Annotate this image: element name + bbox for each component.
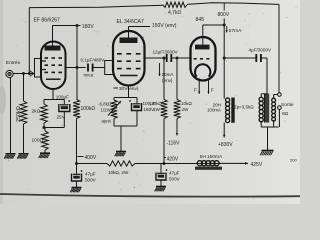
- resistor R8 10k 2W horizontal: [107, 161, 135, 175]
- ground R3: [39, 153, 50, 158]
- wire OPT primary top: [261, 58, 267, 97]
- svg-text:47µF: 47µF: [85, 172, 96, 177]
- wire input to grid: [13, 71, 35, 77]
- svg-text:1/2W: 1/2W: [101, 108, 112, 113]
- ground OPT: [260, 151, 273, 156]
- svg-text:500V: 500V: [85, 178, 97, 183]
- label 400V: [78, 155, 97, 161]
- svg-text:+830V: +830V: [218, 142, 233, 148]
- svg-text:30V(env): 30V(env): [119, 86, 139, 92]
- input jack Entree: [6, 60, 21, 78]
- svg-text:845: 845: [196, 17, 205, 23]
- wire 800V vertical: [223, 19, 226, 99]
- svg-text:57mA: 57mA: [229, 28, 242, 34]
- svg-text:150V (env): 150V (env): [152, 23, 177, 29]
- svg-text:800V: 800V: [218, 12, 230, 18]
- tube V1 grid bracket: [35, 59, 47, 78]
- tube V1 grid dashes: [45, 58, 63, 79]
- tube V3 filament arch: [195, 64, 210, 76]
- tube V1 label: [34, 18, 61, 24]
- svg-text:10kΩ, 2W: 10kΩ, 2W: [108, 170, 129, 175]
- wire V3 plate to node: [203, 24, 226, 45]
- label 420V: [164, 156, 179, 162]
- wire OPT secondary top: [274, 95, 278, 99]
- svg-text:10kΩ: 10kΩ: [181, 101, 192, 106]
- stray page text: [290, 158, 297, 163]
- tube V3 grid dashes: [194, 58, 210, 60]
- svg-text:F: F: [194, 88, 197, 94]
- svg-text:100mA: 100mA: [207, 108, 221, 113]
- svg-text:2W: 2W: [182, 107, 190, 112]
- output terminal Sortie hot: [278, 93, 294, 108]
- label 30V env: [114, 86, 139, 92]
- svg-text:250kΩ: 250kΩ: [16, 106, 22, 122]
- svg-text:8Ω: 8Ω: [282, 111, 289, 117]
- svg-text:Zp≈3,5kΩ: Zp≈3,5kΩ: [234, 105, 254, 110]
- label 180V: [82, 24, 94, 30]
- resistor R1 250k grid leak: [16, 72, 27, 154]
- svg-text:EL 34/6CA7: EL 34/6CA7: [117, 19, 144, 25]
- output terminal Sortie return: [274, 106, 289, 127]
- capacitor C3 100uF 160V: [129, 100, 156, 112]
- ground C7: [155, 187, 166, 192]
- svg-text:425V: 425V: [251, 162, 263, 168]
- tube V2 label: [117, 19, 144, 25]
- wire OPT primary bottom: [261, 121, 278, 127]
- wire V2 cathode: [114, 86, 137, 104]
- svg-text:200: 200: [290, 158, 297, 163]
- svg-text:4,7kΩ: 4,7kΩ: [168, 10, 181, 16]
- wire cathode node: [43, 126, 65, 129]
- wire supply rail 400V section: [75, 162, 107, 165]
- label 800V: [218, 3, 230, 18]
- wire V2 cathode bottom: [114, 111, 137, 152]
- label -116V bias: [167, 119, 181, 147]
- svg-text:100µF: 100µF: [56, 94, 69, 99]
- svg-text:100Ω: 100Ω: [32, 138, 44, 144]
- wire V1 plate node vertical: [76, 24, 79, 100]
- tube V3 label: [196, 17, 205, 23]
- wire V1 plate to 180V: [53, 26, 81, 46]
- wire V2 plate pin to cap: [145, 57, 167, 60]
- label 20mA env: [158, 63, 174, 83]
- page rule line: [0, 194, 300, 197]
- svg-text:0,1µF/480V: 0,1µF/480V: [81, 58, 106, 63]
- tube V3 anode plate bar: [195, 45, 210, 50]
- tube V2 anode plate bar: [120, 38, 138, 44]
- svg-text:20mA: 20mA: [162, 72, 175, 77]
- wire C4 to 845 grid: [171, 57, 190, 60]
- resistor R3 100R: [32, 128, 49, 154]
- choke L2 5H 150mA: [195, 154, 223, 170]
- svg-text:150mA: 150mA: [207, 154, 223, 160]
- capacitor C2 0,1uF/480V mica: [81, 58, 106, 78]
- wire V3 filament leads F F: [194, 79, 214, 94]
- svg-text:100kΩ: 100kΩ: [81, 106, 96, 112]
- svg-text:25V: 25V: [57, 114, 66, 119]
- resistor R4 100k plate load: [73, 100, 95, 165]
- ground R1: [17, 154, 28, 159]
- tube V2 grid bracket: [105, 61, 113, 75]
- wire V1 side pin to coupling cap: [66, 67, 86, 69]
- capacitor C5 4uF/3000V: [224, 48, 272, 63]
- wire V2 top to 150V: [129, 27, 151, 38]
- svg-text:4µF/3000V: 4µF/3000V: [249, 48, 273, 53]
- label 57mA: [226, 26, 243, 34]
- wire jack ground drop: [10, 78, 12, 154]
- potentiometer R5 6,8k ajust: [100, 100, 122, 124]
- svg-text:mica: mica: [84, 73, 94, 78]
- svg-text:400V: 400V: [85, 155, 97, 161]
- svg-text:-116V: -116V: [167, 141, 181, 147]
- svg-text:5H: 5H: [200, 154, 207, 160]
- svg-text:47µF: 47µF: [169, 171, 180, 176]
- svg-text:Entrée: Entrée: [6, 60, 21, 66]
- svg-text:2kΩ: 2kΩ: [32, 109, 41, 115]
- capacitor C1 100uF 25V: [56, 94, 70, 127]
- svg-text:F: F: [211, 88, 214, 94]
- tube V1 EF86 envelope: [41, 41, 66, 89]
- ground C6: [70, 188, 81, 193]
- svg-text:10kΩ: 10kΩ: [151, 101, 162, 106]
- svg-text:EF 86/6267: EF 86/6267: [34, 18, 61, 24]
- wire V1 cathode: [44, 89, 64, 104]
- svg-text:Sortie: Sortie: [281, 102, 294, 108]
- tube V1 anode plate bar: [45, 46, 61, 51]
- capacitor C6 47uF 500V: [72, 164, 97, 188]
- ground V2 cathode: [115, 152, 126, 157]
- svg-text:180V: 180V: [82, 24, 94, 30]
- wire supply rail 420V section: [135, 163, 198, 165]
- resistor R7 10k 2W: [174, 58, 193, 119]
- transformer T1 output Zp 3,5k: [234, 94, 276, 123]
- tube V2 EL34 envelope: [113, 31, 145, 86]
- wire top feedback rail: [30, 3, 280, 8]
- svg-text:ajust: ajust: [102, 119, 112, 124]
- capacitor C7 47uF 500V: [156, 164, 181, 187]
- wire OPT ground stem: [267, 127, 269, 150]
- wire rail to 425V: [219, 162, 263, 168]
- resistor R feedback 4,7k: [163, 2, 187, 16]
- wire choke to 830V: [218, 123, 233, 148]
- choke L1 20H 100mA: [207, 98, 235, 123]
- ground input jack: [4, 154, 15, 159]
- label 150V env: [152, 23, 177, 29]
- tube V3 845 envelope: [191, 37, 216, 81]
- resistor R6 10k 1W: [151, 58, 167, 165]
- resistor R2 2k cathode: [32, 104, 48, 128]
- tube V2 grid dashes: [117, 54, 141, 76]
- svg-text:6,8kΩ: 6,8kΩ: [100, 102, 112, 107]
- svg-text:420V: 420V: [167, 156, 179, 162]
- svg-text:1W: 1W: [153, 107, 161, 112]
- capacitor C4 12uF/3000V: [153, 50, 179, 63]
- wire left vertical feedback to input: [28, 8, 31, 76]
- svg-text:12µF/3000V: 12µF/3000V: [153, 50, 179, 55]
- svg-text:500V: 500V: [169, 177, 181, 182]
- wire right vertical to output terminal: [278, 4, 280, 92]
